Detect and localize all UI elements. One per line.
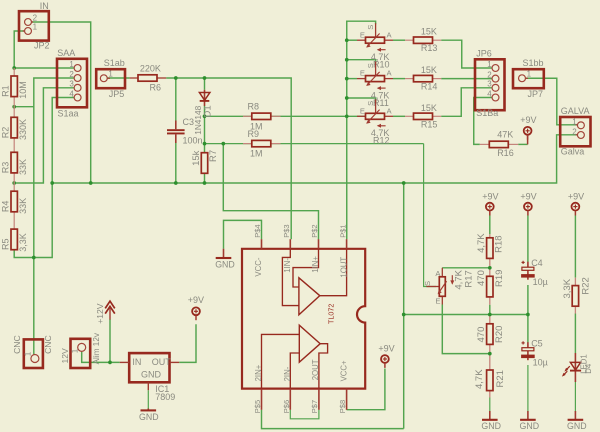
- svg-text:33K: 33K: [18, 159, 28, 175]
- wire R18 to node: [489, 258, 491, 268]
- resistor R9: [243, 129, 281, 159]
- potentiometer R12: [357, 99, 393, 145]
- wire SAA pin2 down: [34, 78, 74, 258]
- svg-text:P$6: P$6: [282, 400, 291, 413]
- svg-text:P$5: P$5: [253, 400, 262, 413]
- svg-text:+9V: +9V: [568, 192, 584, 202]
- svg-text:4: 4: [487, 89, 492, 98]
- wire R7 top: [204, 144, 206, 153]
- svg-text:CNC: CNC: [43, 335, 53, 354]
- junction (346.75,98): [345, 96, 349, 100]
- wire GND to P$4: [224, 220, 262, 248]
- junction (403.7,314.5): [402, 313, 406, 317]
- wire JP2 pin2 to long GND line: [32, 22, 91, 183]
- resistor R7: [191, 150, 219, 173]
- connector GALVA: [560, 106, 590, 156]
- svg-text:GND: GND: [141, 370, 162, 380]
- svg-text:3,3K: 3,3K: [18, 233, 28, 252]
- wire +9V to R22: [574, 216, 576, 278]
- svg-text:VCC-: VCC-: [254, 257, 263, 276]
- connector JP7 S1bb: [513, 58, 544, 99]
- wire R14 to JP6 pin2: [441, 78, 492, 80]
- wire mid rail y=314.5: [404, 314, 528, 316]
- svg-text:+9V: +9V: [378, 343, 394, 353]
- svg-text:33K: 33K: [18, 198, 28, 214]
- wire R13 to JP6 pin1: [441, 40, 492, 68]
- junction (346.75,59.7): [345, 58, 349, 62]
- resistor R21: [474, 369, 506, 391]
- svg-text:1: 1: [572, 118, 577, 127]
- wire R17 E down: [442, 305, 490, 354]
- junction (204.5,183): [203, 181, 207, 185]
- svg-text:R22: R22: [580, 277, 591, 294]
- +9V supply (196,311.3): [188, 295, 204, 320]
- resistor R1: [1, 76, 28, 99]
- svg-text:R9: R9: [248, 129, 260, 139]
- svg-text:R18: R18: [494, 235, 505, 252]
- wire R7 bottom: [204, 174, 206, 184]
- svg-text:P$1: P$1: [338, 224, 347, 237]
- svg-text:R2: R2: [1, 127, 11, 139]
- connector 12V: [60, 332, 101, 368]
- connector JP6 S1Ba: [475, 48, 505, 118]
- wire R9 row: [205, 143, 424, 145]
- svg-text:+9V: +9V: [482, 192, 498, 202]
- junction (14.2,183): [12, 181, 16, 185]
- wire R21 to GND: [489, 390, 491, 413]
- wire R16 to +9V: [518, 135, 527, 144]
- svg-text:E: E: [360, 69, 365, 78]
- svg-text:VCC+: VCC+: [340, 360, 349, 381]
- wire pot bus: [347, 21, 376, 239]
- svg-text:+9V: +9V: [520, 115, 536, 125]
- svg-text:JP6: JP6: [476, 48, 492, 58]
- wire SAA pin4 down: [52, 98, 74, 184]
- wire C3 bottom: [175, 143, 177, 183]
- svg-text:GND: GND: [139, 412, 159, 422]
- ground IC1: [139, 409, 159, 422]
- svg-text:GND: GND: [215, 260, 235, 270]
- resistor R4: [1, 191, 28, 214]
- connector JP2: [19, 1, 50, 50]
- svg-text:2IN+: 2IN+: [254, 364, 263, 381]
- svg-text:E: E: [435, 296, 440, 305]
- svg-text:47K: 47K: [497, 130, 513, 140]
- connector SAA S1aa: [57, 48, 87, 119]
- svg-text:JP7: JP7: [528, 89, 544, 99]
- +9V supply (527.6,130.8): [520, 115, 536, 140]
- svg-text:1: 1: [527, 70, 532, 79]
- diode D1: [193, 90, 214, 135]
- svg-text:15K: 15K: [421, 27, 437, 37]
- wire C4 to node: [527, 285, 529, 315]
- junction (33.8,257.5): [32, 256, 36, 260]
- wire R6 to corner and down to P$3: [166, 78, 291, 239]
- svg-text:1OUT: 1OUT: [339, 257, 348, 278]
- svg-text:1M: 1M: [250, 149, 263, 159]
- potentiometer R17: [423, 268, 475, 306]
- wire R19 to node: [489, 296, 491, 314]
- svg-text:R13: R13: [421, 43, 438, 53]
- svg-text:4,7K: 4,7K: [476, 233, 487, 253]
- svg-text:TL072: TL072: [327, 304, 336, 324]
- svg-text:3,3K: 3,3K: [562, 278, 573, 298]
- wire long GND net y=183: [52, 135, 577, 183]
- wire S2 branch: [347, 60, 376, 65]
- svg-text:JP5: JP5: [109, 89, 125, 99]
- wire A1 to R13: [393, 39, 405, 41]
- svg-text:2: 2: [69, 70, 74, 79]
- junction (204.5,116.3): [203, 114, 207, 118]
- wire node to C5: [527, 315, 529, 343]
- svg-text:R21: R21: [495, 370, 506, 387]
- svg-text:Alim 12v: Alim 12v: [92, 332, 101, 364]
- wire CNC drop: [33, 258, 35, 355]
- wire D1 top: [204, 78, 206, 90]
- svg-text:15K: 15K: [421, 65, 437, 75]
- svg-text:P$7: P$7: [310, 400, 319, 413]
- svg-text:+9V: +9V: [188, 295, 204, 305]
- wire S1bb to GALVA pin1: [526, 78, 578, 125]
- svg-text:S1ab: S1ab: [104, 58, 125, 68]
- capacitor C5: [521, 339, 548, 368]
- resistor R6: [130, 63, 167, 92]
- svg-text:R20: R20: [494, 326, 505, 343]
- wire R20 to node: [489, 344, 491, 353]
- svg-text:R8: R8: [248, 102, 260, 112]
- svg-text:R6: R6: [150, 82, 162, 92]
- svg-text:SAA: SAA: [57, 48, 75, 58]
- svg-text:10µ: 10µ: [533, 277, 548, 287]
- svg-text:12V: 12V: [60, 348, 70, 364]
- svg-text:P$4: P$4: [253, 224, 262, 237]
- svg-text:4,7K: 4,7K: [474, 369, 485, 389]
- wire A3 to R15: [393, 115, 405, 117]
- svg-text:D1: D1: [203, 105, 214, 117]
- resistor R2: [1, 117, 28, 140]
- svg-text:JP2: JP2: [34, 41, 50, 51]
- svg-text:R17: R17: [463, 270, 474, 287]
- wire R5 bottom to CNC row: [14, 250, 34, 258]
- wire tap R1-R2 to pin2 column: [14, 106, 34, 108]
- svg-text:+9V: +9V: [520, 192, 536, 202]
- regulator IC1 7809: [120, 353, 179, 402]
- junction (110,362.4): [108, 361, 112, 365]
- svg-text:R5: R5: [1, 238, 11, 250]
- ground C5: [520, 411, 540, 431]
- resistor R18: [476, 233, 504, 259]
- svg-text:S: S: [366, 25, 375, 30]
- svg-text:1: 1: [108, 70, 113, 79]
- svg-text:S: S: [366, 101, 375, 106]
- svg-text:S: S: [366, 63, 375, 68]
- svg-text:P$3: P$3: [282, 224, 291, 237]
- wire 12V to IC1 IN: [82, 352, 120, 363]
- svg-text:2: 2: [33, 13, 38, 22]
- junction (175.8,78): [174, 76, 178, 80]
- resistor R22: [562, 277, 592, 313]
- ground near TL072: [215, 249, 235, 270]
- wire P$8 to +9V: [347, 369, 385, 410]
- svg-text:470: 470: [476, 270, 487, 286]
- junction (14.2,68): [12, 66, 16, 70]
- junction (52.2,183): [50, 181, 54, 185]
- resistor R15: [405, 103, 441, 130]
- svg-text:R14: R14: [421, 82, 438, 92]
- junction (527.9,314.5): [526, 313, 530, 317]
- junction (223.3,143.6): [221, 142, 225, 146]
- svg-text:S: S: [423, 281, 432, 286]
- op-amp U1 TL072: [242, 224, 365, 413]
- svg-text:CNC: CNC: [12, 335, 22, 354]
- resistor R8: [243, 102, 281, 132]
- svg-text:220K: 220K: [140, 63, 161, 73]
- resistor R5: [1, 229, 28, 252]
- svg-text:S1aa: S1aa: [58, 109, 79, 119]
- svg-text:470: 470: [476, 327, 487, 343]
- wire JP2 pin1 to node A: [14, 31, 24, 68]
- potentiometer R11: [357, 62, 393, 108]
- svg-text:R16: R16: [497, 148, 514, 158]
- wire D1 bottom to node: [204, 106, 206, 116]
- connector JP5 S1ab: [96, 58, 125, 99]
- svg-text:2IN-: 2IN-: [283, 366, 292, 381]
- LED D4: [562, 353, 593, 382]
- svg-text:R7: R7: [208, 150, 219, 162]
- svg-text:7809: 7809: [155, 392, 175, 402]
- connector CNC: [12, 335, 53, 368]
- svg-text:2: 2: [487, 70, 492, 79]
- svg-text:1N4148: 1N4148: [193, 105, 203, 134]
- capacitor C4: [521, 258, 548, 287]
- junction (14.2,106.7): [12, 105, 16, 109]
- junction (489.8,267.8): [488, 266, 492, 270]
- resistor R20: [476, 324, 505, 345]
- svg-text:1: 1: [69, 60, 74, 69]
- +12V supply: [95, 301, 115, 324]
- wire GND net riser x=403.7: [403, 183, 405, 429]
- svg-text:IN: IN: [132, 357, 141, 367]
- junction (90.7,183): [89, 181, 93, 185]
- svg-text:1IN+: 1IN+: [311, 256, 320, 273]
- svg-text:E: E: [360, 30, 365, 39]
- junction (204.5,78): [203, 76, 207, 80]
- wire node D1 down to R9 row: [204, 116, 206, 143]
- svg-text:R4: R4: [1, 201, 11, 213]
- junction (403.7,183): [402, 181, 406, 185]
- junction (489.8,353.6): [488, 352, 492, 356]
- svg-text:C5: C5: [531, 339, 543, 349]
- svg-text:E: E: [360, 106, 365, 115]
- wire S3 branch: [347, 98, 376, 103]
- wire P$6 P$7 link: [290, 410, 319, 419]
- junction (346.75,116.3): [345, 114, 349, 118]
- wire R22 to LED: [574, 314, 576, 354]
- svg-text:IN: IN: [40, 1, 49, 11]
- svg-text:R19: R19: [494, 270, 505, 287]
- svg-text:15k: 15k: [191, 150, 202, 166]
- junction (346.75,78.6): [345, 77, 349, 81]
- wire R15 to JP6 pin3: [441, 88, 492, 117]
- capacitor C3: [167, 117, 203, 145]
- svg-text:GND: GND: [520, 421, 540, 431]
- svg-text:GND: GND: [567, 421, 587, 431]
- svg-text:330K: 330K: [18, 119, 28, 140]
- wire node to R21: [489, 354, 491, 370]
- svg-text:1: 1: [33, 22, 38, 31]
- resistor R13: [405, 27, 441, 54]
- svg-text:Galva: Galva: [561, 147, 585, 157]
- wire node A to SAA pin1: [14, 67, 74, 69]
- wire R17 A to R18 node: [442, 267, 490, 269]
- svg-text:D4: D4: [584, 363, 593, 374]
- svg-text:4: 4: [69, 89, 74, 98]
- resistor R16: [480, 130, 518, 159]
- wire IC1 GND pin: [147, 390, 149, 409]
- svg-text:S1bb: S1bb: [523, 58, 544, 68]
- wire +9V to C4: [527, 216, 529, 263]
- svg-text:1: 1: [487, 60, 492, 69]
- svg-text:S1Ba: S1Ba: [476, 108, 498, 118]
- wire LED to GND: [574, 382, 576, 412]
- wire pin4 column to CNC row: [34, 183, 52, 258]
- svg-text:3: 3: [69, 80, 74, 89]
- svg-text:10M: 10M: [18, 81, 28, 99]
- svg-text:1: 1: [71, 348, 80, 353]
- +9V supply (527.9,206.6): [520, 192, 536, 216]
- +9V supply (489.8,206.6): [482, 192, 498, 216]
- wire R9 net down to R17 S: [424, 144, 436, 287]
- wire E2 branch: [347, 78, 357, 80]
- wire +9V to R18: [489, 216, 491, 238]
- svg-text:C4: C4: [531, 258, 543, 268]
- wire JP5 to R6: [107, 77, 129, 79]
- resistor R3: [1, 152, 28, 175]
- svg-text:2OUT: 2OUT: [311, 359, 320, 380]
- svg-text:P$8: P$8: [338, 400, 347, 413]
- svg-text:R15: R15: [421, 119, 438, 129]
- svg-text:P$2: P$2: [310, 224, 319, 237]
- wire resistor chain leads: [13, 68, 15, 250]
- junction (175.8,183): [174, 181, 178, 185]
- junction (346.75,40.2): [345, 38, 349, 42]
- wire E1 branch: [347, 39, 357, 41]
- wire +12V symbol drop: [109, 319, 111, 362]
- svg-text:1IN-: 1IN-: [283, 258, 292, 273]
- ground LED: [567, 411, 587, 431]
- resistor R19: [476, 270, 505, 297]
- svg-text:+12V: +12V: [95, 303, 105, 324]
- wire node to R20: [489, 315, 491, 324]
- junction (204.5,143.6): [203, 142, 207, 146]
- wire C5 to GND: [527, 365, 529, 412]
- wire C3 top: [175, 78, 177, 121]
- svg-text:R3: R3: [1, 162, 11, 174]
- svg-text:GALVA: GALVA: [561, 106, 590, 116]
- wire R8 row / E3 row: [205, 115, 366, 117]
- +9V supply (575.4,206.6): [568, 192, 584, 216]
- wire JP6 pin4 to R16: [474, 98, 492, 145]
- wire A2 to R14: [393, 78, 405, 80]
- svg-text:GND: GND: [481, 421, 501, 431]
- wire R9 node to P$2: [223, 144, 318, 240]
- svg-text:R12: R12: [373, 136, 390, 146]
- resistor R14: [405, 65, 441, 92]
- svg-text:1: 1: [24, 351, 33, 356]
- svg-text:R1: R1: [1, 85, 11, 97]
- svg-text:2: 2: [572, 127, 577, 136]
- +9V supply (384.9,359): [378, 343, 394, 368]
- svg-text:10µ: 10µ: [533, 358, 548, 368]
- svg-text:OUT: OUT: [152, 357, 172, 367]
- potentiometer R10: [357, 23, 393, 69]
- wire node to R19: [489, 268, 491, 277]
- wire SAA pin3 to node R3-R4: [14, 88, 74, 183]
- svg-text:15K: 15K: [421, 103, 437, 113]
- ground R21: [481, 411, 501, 431]
- junction (489.8,314.5): [488, 313, 492, 317]
- wire IC1 OUT to +9V: [179, 324, 196, 362]
- svg-text:3: 3: [487, 80, 492, 89]
- wire P$5 to GND net: [262, 410, 404, 429]
- svg-text:100n: 100n: [183, 135, 203, 145]
